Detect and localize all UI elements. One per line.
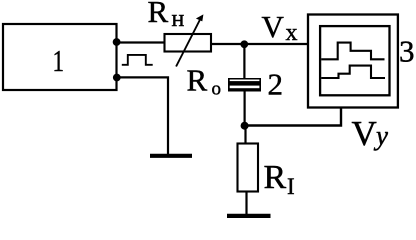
svg-text:R: R bbox=[264, 159, 287, 196]
waveform lower trace bbox=[321, 66, 385, 78]
svg-text:н: н bbox=[172, 6, 185, 32]
svg-text:y: y bbox=[373, 121, 388, 151]
waveform upper trace bbox=[321, 43, 384, 60]
ground (left) bbox=[150, 154, 192, 158]
svg-text:R: R bbox=[187, 63, 208, 98]
wire (capacitor to Vy node) bbox=[244, 92, 246, 127]
svg-text:1: 1 bbox=[53, 43, 65, 78]
svg-text:R: R bbox=[148, 0, 169, 29]
svg-text:2: 2 bbox=[268, 67, 284, 102]
svg-text:I: I bbox=[287, 174, 295, 199]
svg-text:V: V bbox=[352, 114, 377, 153]
oscilloscope 3 outer box bbox=[308, 15, 398, 108]
variable resistor arrow bbox=[176, 20, 200, 67]
wire (RI to ground) bbox=[245, 192, 247, 216]
oscilloscope screen bbox=[320, 26, 389, 95]
ground (bottom) bbox=[227, 214, 271, 218]
wire (generator output to Rн) bbox=[117, 41, 166, 43]
node dot Vy bbox=[241, 122, 249, 130]
svg-text:3: 3 bbox=[399, 33, 415, 68]
svg-text:x: x bbox=[286, 20, 298, 46]
svg-text:o: o bbox=[212, 79, 222, 100]
wire (Vx node down to capacitor 2) bbox=[243, 44, 245, 79]
pulse waveform symbol bbox=[122, 55, 153, 65]
node dot Vx bbox=[240, 40, 248, 48]
wire (Vy node down to RI) bbox=[244, 126, 246, 144]
wire (generator lower output to left ground) bbox=[117, 77, 168, 154]
capacitor block 2 (Ro) bbox=[228, 78, 261, 92]
block 1 (pulse generator) bbox=[3, 24, 117, 90]
wire (Rн to Vx node to oscilloscope) bbox=[211, 43, 307, 45]
variable resistor Rн body bbox=[165, 34, 212, 52]
node dot (generator lower output) bbox=[113, 74, 121, 82]
resistor RI body bbox=[238, 144, 259, 192]
node dot (generator output) bbox=[113, 38, 121, 46]
svg-text:V: V bbox=[262, 9, 285, 44]
wire (Vy node to oscilloscope bottom) bbox=[245, 106, 341, 126]
